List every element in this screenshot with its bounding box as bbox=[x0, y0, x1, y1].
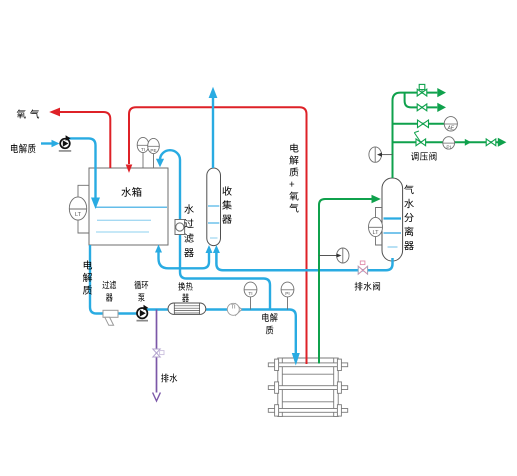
label 水过滤器 bbox=[184, 204, 194, 257]
gauge PI on branch4 bbox=[443, 137, 455, 151]
label 调压阀 bbox=[411, 152, 436, 161]
level transmitter LT on tank bbox=[69, 185, 89, 233]
instrument TI above line bbox=[244, 282, 257, 309]
svg-text:TI: TI bbox=[231, 304, 235, 310]
strainer 过滤器 symbol bbox=[103, 310, 118, 325]
label 换热器 bbox=[178, 282, 192, 302]
instrument PS on green line (flag left of riser) bbox=[369, 147, 393, 162]
wire red oxygen outlet pipe bbox=[58, 112, 110, 168]
gas-water separator 气水分离器 vessel bbox=[382, 178, 403, 261]
instrument PI on green stack line bbox=[319, 248, 349, 263]
instrument PI above line bbox=[281, 282, 294, 309]
svg-text:PI: PI bbox=[446, 144, 451, 150]
inline thermometer TI on line bbox=[227, 303, 242, 315]
level transmitter LT on separator bbox=[369, 208, 383, 246]
circulation pump P2 bbox=[137, 305, 149, 322]
svg-text:LT: LT bbox=[75, 212, 82, 218]
label 收集器 bbox=[222, 186, 232, 223]
label 循环泵 bbox=[134, 281, 148, 302]
wire green branch 4 vent bbox=[393, 141, 499, 143]
svg-text:TI: TI bbox=[248, 291, 252, 297]
label 水箱 bbox=[121, 187, 141, 197]
arrow drain open V bbox=[153, 393, 161, 402]
wire green separator riser and branch 1 bbox=[393, 93, 438, 178]
label 电解质 (stack feed) bbox=[262, 313, 277, 334]
arrow up into tank bottom bbox=[155, 245, 162, 253]
analyzer AE circle bbox=[444, 117, 457, 132]
wire filter loop: main line branch up through water filter into tank bbox=[160, 150, 270, 309]
svg-text:AE: AE bbox=[446, 126, 454, 132]
arrow branch4 small flow marker bbox=[465, 139, 471, 146]
wire tank bottom to collector bottom left bbox=[159, 251, 210, 268]
label electrolyte 电解质 (feed) bbox=[11, 144, 36, 154]
arrow electrolyte into stack bbox=[292, 353, 300, 366]
valve V3 branch3 bbox=[418, 120, 429, 128]
wire green branch 3 to analyzer bbox=[393, 123, 445, 125]
electrolyte feed pump P1 inlet line bbox=[41, 142, 53, 144]
label 电解质+氧气 bbox=[289, 143, 298, 212]
drain valve 排水阀 bbox=[358, 261, 367, 274]
label oxygen 氧气 bbox=[17, 109, 39, 118]
arrow oxygen outlet bbox=[49, 108, 60, 117]
wire red pipe from electrolyzer to tank (top loop) bbox=[129, 107, 307, 364]
svg-text:TI: TI bbox=[141, 147, 145, 152]
purple drain valve bbox=[153, 349, 164, 357]
arrow up into collector bottom right bbox=[213, 245, 220, 253]
tie rod at y=410.4 bbox=[268, 409, 347, 413]
label 过滤器 bbox=[102, 281, 116, 302]
arrow up into collector bottom left bbox=[206, 245, 213, 253]
pressure regulating valve 调压阀 bbox=[414, 131, 425, 146]
wire blue collector vent riser bbox=[212, 97, 214, 168]
label 排水 bbox=[161, 374, 177, 383]
label 排水阀 bbox=[355, 282, 380, 291]
label 气水分离器 bbox=[404, 185, 414, 250]
collector 收集器 vessel bbox=[207, 168, 221, 246]
tank top instruments TI / PE bbox=[137, 137, 159, 168]
arrow branch2 bbox=[437, 103, 446, 112]
arrow branch4 outlet bbox=[498, 138, 507, 147]
svg-text:PI: PI bbox=[285, 291, 290, 297]
wire green stack to separator inlet bbox=[319, 199, 373, 364]
arrow red into tank bbox=[126, 165, 133, 173]
heat exchanger 换热器 symbol bbox=[168, 303, 206, 314]
valve V1 branch1 with bonnet square bbox=[417, 84, 427, 96]
water tank 水箱 vessel bbox=[89, 168, 168, 245]
wire green branch 2 bbox=[405, 93, 438, 108]
arrow into separator bbox=[372, 195, 381, 204]
label 电解质 (tank outlet, vertical) bbox=[83, 260, 92, 294]
svg-text:LT: LT bbox=[372, 230, 379, 236]
arrow collector vent up bbox=[209, 87, 218, 98]
wire pump P1 discharge into tank bbox=[68, 138, 96, 198]
valve V2 branch2 bbox=[417, 104, 427, 111]
water filter 水过滤器 symbol bbox=[175, 220, 185, 235]
tie rod at y=387.6 bbox=[268, 386, 347, 390]
tie rod at y=364.8 bbox=[268, 363, 347, 367]
pump P1 (electrolyte feed) bbox=[59, 135, 71, 152]
wire purple drain line bbox=[156, 310, 158, 393]
svg-text:PE: PE bbox=[150, 148, 156, 153]
valve V5 branch4 bbox=[486, 139, 496, 146]
wire pump P2 discharge through heat exchanger to electrolyzer bbox=[147, 310, 296, 354]
wire separator drain to collector bottom right bbox=[216, 253, 392, 271]
wire main circulation: tank bottom to pump P2 bbox=[90, 245, 137, 314]
arrow branch1 product gas bbox=[437, 88, 446, 97]
arrow hook into tank top bbox=[156, 159, 164, 168]
arrow electrolyte into tank liquid bbox=[91, 198, 100, 210]
electrolyzer stack bbox=[268, 358, 347, 417]
